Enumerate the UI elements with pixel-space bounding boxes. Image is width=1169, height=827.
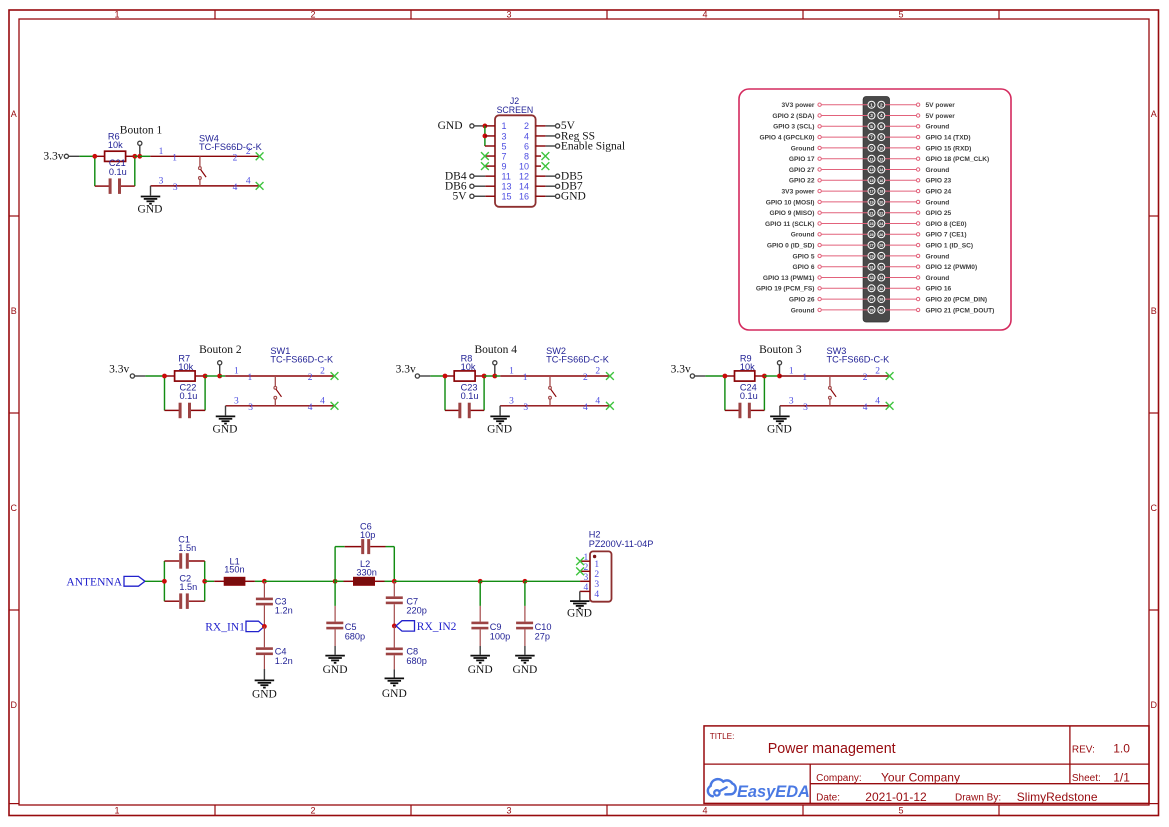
connector H2 labels [589,530,654,550]
svg-text:4: 4 [583,403,588,413]
svg-text:23: 23 [869,222,873,226]
svg-text:3: 3 [870,113,873,118]
net label 3.3v (B3) [671,363,691,375]
resistor R6 body [105,151,126,161]
wire resistor to junction2 (B2) [195,375,205,377]
wire button port down (B4) [494,365,496,376]
svg-text:Ground: Ground [791,307,815,314]
svg-text:3: 3 [159,177,164,187]
svg-text:7: 7 [870,135,873,140]
svg-text:27: 27 [869,244,873,248]
switch SW3 labels [827,346,891,364]
capacitor C6 [345,539,386,554]
net port terminal 5V (J2 right) [556,124,560,128]
svg-text:C9: C9 [490,622,502,632]
svg-text:4: 4 [524,131,529,141]
net label ANTENNA [66,576,122,588]
junction dot 2 (B2) [203,374,208,379]
wire button port down (B3) [779,365,781,376]
switch SW2 labels [546,346,610,364]
wire capacitor loop left (B3) [724,376,726,410]
svg-text:15: 15 [869,179,873,183]
wire button port down (B1) [139,145,141,156]
svg-text:12: 12 [879,157,883,161]
svg-text:TITLE:: TITLE: [710,732,735,741]
junction dot 3 (B1) [137,154,142,159]
switch SW1 pin labels [234,367,325,413]
gpio row 11 (pins 21/22) [769,209,951,217]
wire pin1 row (B4) [495,375,610,377]
net label GND (J2 right) [561,191,586,203]
no-connect flag pin4 (B2) [331,402,339,410]
net label RX_IN2 [417,621,457,633]
svg-text:GPIO 15 (RXD): GPIO 15 (RXD) [926,145,972,152]
no-connect flag pin2 (B2) [331,372,339,380]
wire C5 to ground [334,646,336,655]
svg-text:10: 10 [519,161,529,171]
net label Bouton 2 [199,344,242,356]
ground symbol (C8) [385,678,405,685]
svg-text:40: 40 [879,309,883,313]
gpio row 19 (pins 37/38) [789,296,987,304]
junction dot 1 (B4) [443,374,448,379]
svg-text:GPIO 0 (ID_SD): GPIO 0 (ID_SD) [767,243,815,250]
wire junction2 to junction3 (B4) [484,375,495,377]
wire node2 to C5 [334,581,336,606]
wire pin3 row (B3) [780,405,890,407]
svg-text:5: 5 [502,141,507,151]
svg-text:GPIO 6: GPIO 6 [793,264,815,271]
net port terminal DB7 (J2 right) [556,184,560,188]
net label Enable Signal (J2 right) [561,140,625,152]
svg-text:SCREEN: SCREEN [497,105,534,115]
svg-text:25: 25 [869,233,873,237]
wire C8 to ground [393,669,395,677]
svg-text:220p: 220p [406,606,426,616]
wire capacitor loop right (B2) [204,376,206,410]
ground symbol (C10) [515,656,535,663]
junction dot 2 (B4) [482,374,487,379]
svg-text:10k: 10k [740,362,755,372]
ground label (C5) [323,664,348,676]
junction dot 3 (B3) [777,374,782,379]
svg-text:Drawn By:: Drawn By: [955,793,1001,804]
title block Company [816,770,960,784]
wire GND bus down (J2) [484,126,486,146]
gpio row 2 (pins 3/4) [772,112,955,120]
svg-text:1: 1 [594,560,599,570]
capacitor C2 [164,593,204,609]
net port terminal Reg SS (J2 right) [556,134,560,138]
junction dot J2 pin1 [483,124,488,129]
ground label (B1) [138,203,163,215]
title block Date [816,790,927,804]
svg-text:36: 36 [879,287,883,291]
svg-text:3: 3 [523,403,528,413]
svg-text:1/1: 1/1 [1113,770,1130,784]
gpio row 8 (pins 15/16) [789,177,952,185]
svg-text:3.3v: 3.3v [43,151,63,163]
net label RX_IN1 [205,621,245,633]
ground label (C9) [468,664,493,676]
svg-text:2: 2 [233,154,238,164]
svg-text:GND: GND [438,120,463,132]
no-connect flag pin2 (B1) [256,152,264,160]
svg-text:REV:: REV: [1072,744,1095,755]
svg-text:8: 8 [524,151,529,161]
svg-text:0.1u: 0.1u [461,391,479,401]
svg-text:D: D [11,700,18,710]
wire to ground (B1) [150,186,152,196]
capacitor C5 [326,606,343,646]
switch SW2 symbol [549,376,557,406]
svg-text:4: 4 [880,113,883,118]
capacitor C21 labels [109,158,127,177]
ground symbol (B2) [216,416,236,423]
svg-text:100p: 100p [490,631,510,641]
svg-text:GND: GND [252,689,277,701]
wire junction to resistor (B4) [445,375,454,377]
net port terminal DB4 (J2) [470,174,474,178]
net flag RX_IN2 [396,621,415,631]
switch SW3 pin labels [789,367,880,413]
net label DB7 (J2 right) [561,181,583,193]
title block DrawnBy [955,790,1098,804]
wire to ground (B2) [225,406,227,416]
junction dot RX_IN2 [392,624,397,629]
wire J2 right pin row 0 [536,125,556,127]
svg-text:GPIO 23: GPIO 23 [926,178,952,185]
no-connect flag pin2 (B4) [606,372,614,380]
svg-text:GPIO 18 (PCM_CLK): GPIO 18 (PCM_CLK) [926,156,990,163]
resistor R8 labels [461,354,476,373]
no-connect flag J2 pin7 [481,152,489,160]
svg-text:Enable Signal: Enable Signal [561,140,625,152]
capacitor C8 labels [406,647,426,666]
svg-text:GPIO 11 (SCLK): GPIO 11 (SCLK) [765,221,814,228]
svg-text:4: 4 [233,183,238,193]
svg-text:1.5n: 1.5n [178,543,196,553]
junction dot 1 (B3) [723,374,728,379]
svg-text:3.3v: 3.3v [671,363,691,375]
svg-text:TC-FS66D-C-K: TC-FS66D-C-K [546,355,610,365]
resistor R7 labels [178,354,193,373]
net flag ANTENNA [124,576,145,586]
capacitor C24 labels [740,382,758,401]
wire junction to resistor (B2) [165,375,175,377]
ground label (B2) [213,423,238,435]
wire capacitor loop right (B3) [763,376,765,410]
gpio row 12 (pins 23/24) [765,220,967,228]
net port terminal 5V (J2) [470,194,474,198]
connector J2 body [495,115,536,207]
connector J2 pin numbers [502,121,530,201]
svg-text:11: 11 [870,157,874,161]
wire J2 pin8 [536,155,541,157]
no-connect flag pin4 (B4) [606,402,614,410]
net port terminal GND (J2) [470,124,474,128]
no-connect flag J2 pin9 [481,162,489,170]
wire resistor to junction2 (B3) [755,375,765,377]
svg-text:37: 37 [869,298,873,302]
connector H2 pin stubs [580,561,590,591]
wire J2 right pin row 6 [536,185,556,187]
ground symbol (C5) [325,656,345,663]
svg-text:9: 9 [870,146,873,151]
svg-text:2021-01-12: 2021-01-12 [865,790,927,804]
wire C1C2 left vertical [163,561,165,601]
gpio row 14 (pins 27/28) [767,242,973,250]
svg-text:1: 1 [114,10,119,20]
svg-text:Ground: Ground [791,232,815,239]
svg-text:GPIO 4 (GPCLK0): GPIO 4 (GPCLK0) [760,135,815,142]
svg-text:GPIO 1 (ID_SC): GPIO 1 (ID_SC) [926,243,974,250]
wire resistor to junction2 (B4) [475,375,484,377]
svg-text:2: 2 [310,10,315,20]
ground symbol (B3) [770,416,790,423]
svg-text:C10: C10 [535,622,552,632]
svg-text:4: 4 [594,590,599,600]
svg-text:330n: 330n [356,567,376,577]
svg-text:8: 8 [880,135,883,140]
net label 5V (J2) [453,191,468,203]
wire to ground (B3) [779,406,781,416]
junction dot RX_IN1 [262,624,267,629]
svg-text:GPIO 12 (PWM0): GPIO 12 (PWM0) [926,264,978,271]
ground label (B3) [767,423,792,435]
svg-text:GND: GND [213,423,238,435]
svg-text:1.2n: 1.2n [275,656,293,666]
svg-text:3: 3 [584,573,589,583]
svg-text:5: 5 [898,10,903,20]
title block Sheet [1072,770,1130,784]
svg-text:1: 1 [509,367,514,377]
svg-text:GND: GND [382,688,407,700]
svg-text:4: 4 [702,10,707,20]
svg-text:SlimyRedstone: SlimyRedstone [1017,790,1098,804]
svg-text:2: 2 [246,147,251,157]
svg-text:150n: 150n [224,565,244,575]
switch SW3 symbol [829,376,837,406]
svg-text:2: 2 [524,121,529,131]
svg-text:Ground: Ground [926,124,950,131]
svg-text:Bouton 4: Bouton 4 [475,344,518,356]
junction dot node5 [523,579,528,584]
net port terminal 3.3v (B4) [415,374,419,378]
net label DB4 (J2) [445,170,467,182]
svg-text:GND: GND [323,664,348,676]
capacitor C3 labels [275,596,293,615]
connector H2 pin numbers [584,553,600,600]
svg-text:GND: GND [512,664,537,676]
svg-text:21: 21 [869,211,873,215]
ground symbol (C9) [470,656,490,663]
svg-text:Ground: Ground [791,145,815,152]
wire junction2 to junction3 (B3) [764,375,779,377]
gpio row 20 (pins 39/40) [791,306,995,314]
svg-text:1: 1 [502,121,507,131]
switch SW4 symbol [199,156,207,186]
wire pin1 row (B2) [220,375,335,377]
svg-text:680p: 680p [406,656,426,666]
svg-text:EasyEDA: EasyEDA [737,783,810,801]
wire J2 right pin row 5 [536,175,556,177]
no-connect flag pin4 (B1) [256,182,264,190]
junction dot 1 (B2) [162,374,167,379]
ground label (C10) [512,664,537,676]
svg-text:2: 2 [594,570,599,580]
inductor L2 labels [356,559,376,577]
wire pin1 row (B1) [140,155,260,157]
wire J2 right pin row 7 [536,195,556,197]
net label Bouton 4 [475,344,518,356]
wire node4 to C9 [479,581,481,606]
resistor R8 body [454,371,475,381]
resistor R9 labels [740,354,755,373]
junction dot 3 (B4) [492,374,497,379]
svg-text:17: 17 [869,190,873,194]
wire C4 to ground [263,669,265,680]
svg-text:2: 2 [320,367,325,377]
capacitor C3 [256,581,273,624]
switch SW1 labels [270,346,334,364]
svg-text:10: 10 [879,147,883,151]
svg-text:6: 6 [880,124,883,129]
svg-text:3: 3 [173,183,178,193]
junction dot J2 pin3 [483,134,488,139]
wire J2 right pin row 2 [536,145,556,147]
svg-text:22: 22 [879,211,883,215]
svg-text:5: 5 [898,806,903,816]
svg-text:3: 3 [789,397,794,407]
capacitor C1 labels [178,535,196,553]
ground label (B4) [487,423,512,435]
svg-text:1: 1 [234,367,239,377]
ground symbol (B4) [490,416,510,423]
svg-text:30: 30 [879,255,883,259]
svg-text:4: 4 [702,806,707,816]
wire 3.3v to junction (B4) [420,375,446,377]
net port terminal 3.3v (B2) [130,374,134,378]
switch SW4 labels [199,134,263,152]
wire node5 to C10 [524,581,526,606]
wire pin3 row (B4) [500,405,610,407]
svg-text:GPIO 5: GPIO 5 [793,253,815,260]
wire C9 to ground [479,646,481,655]
svg-text:0.1u: 0.1u [740,391,758,401]
wire junction to resistor (B1) [95,155,105,157]
svg-text:GPIO 25: GPIO 25 [926,210,952,217]
svg-text:GPIO 3 (SCL): GPIO 3 (SCL) [773,124,814,131]
svg-text:D: D [1151,700,1158,710]
svg-text:5: 5 [870,124,873,129]
net flag RX_IN1 [246,621,264,631]
no-connect flag J2 pin10 [542,162,550,170]
svg-text:27p: 27p [535,631,550,641]
gpio row 13 (pins 25/26) [791,231,967,239]
junction dot C1C2 right [202,579,207,584]
connector H2 body [590,551,612,601]
capacitor C23 labels [461,382,479,401]
wire H2 pin4 to ground [579,591,581,600]
resistor R6 labels [108,131,123,150]
wire junction to resistor (B3) [725,375,735,377]
svg-text:RX_IN1: RX_IN1 [205,621,245,633]
svg-text:Company:: Company: [816,773,862,784]
wire DB4 to J2 [474,175,495,177]
svg-text:16: 16 [879,179,883,183]
svg-text:9: 9 [502,161,507,171]
wire pin1 row (B3) [780,375,890,377]
wire J2 pin1 [485,125,495,127]
svg-text:GPIO 22: GPIO 22 [789,178,815,185]
gpio row 9 (pins 17/18) [782,188,952,196]
svg-text:5V power: 5V power [926,113,956,120]
svg-text:GND: GND [487,423,512,435]
capacitor C7 [386,581,403,624]
wire 3.3v to junction (B2) [135,375,165,377]
svg-text:Power management: Power management [768,741,896,757]
svg-text:2: 2 [310,806,315,816]
svg-text:4: 4 [320,397,325,407]
net label DB6 (J2) [445,181,467,193]
svg-text:680p: 680p [345,631,365,641]
gpio row 18 (pins 35/36) [756,285,952,293]
title block dividers [704,726,1149,804]
gpio header strip [863,97,889,323]
net label 3.3v (B1) [43,151,63,163]
svg-text:Ground: Ground [926,253,950,260]
svg-text:B: B [1151,306,1157,316]
svg-text:4: 4 [584,583,589,593]
svg-text:4: 4 [595,397,600,407]
svg-text:TC-FS66D-C-K: TC-FS66D-C-K [270,355,334,365]
svg-text:4: 4 [308,403,313,413]
svg-text:28: 28 [879,244,883,248]
junction dot node3 [392,579,397,584]
svg-text:4: 4 [863,403,868,413]
svg-text:31: 31 [869,265,873,269]
no-connect flag J2 pin8 [542,152,550,160]
junction dot 3 (B2) [217,374,222,379]
svg-text:GPIO 2 (SDA): GPIO 2 (SDA) [772,113,814,120]
inductor L1 body [224,577,245,585]
svg-text:GPIO 7 (CE1): GPIO 7 (CE1) [926,232,967,239]
svg-text:GPIO 9 (MISO): GPIO 9 (MISO) [769,210,814,217]
svg-text:0.1u: 0.1u [109,167,127,177]
svg-text:5V power: 5V power [926,102,956,109]
junction dot C1C2 left [162,579,167,584]
svg-text:3: 3 [506,10,511,20]
svg-text:1: 1 [159,147,164,157]
ground symbol (B1) [141,197,161,204]
svg-text:1.2n: 1.2n [275,606,293,616]
net port terminal Bouton 2 [218,361,222,365]
wire button port down (B2) [219,365,221,376]
title block TITLE label [710,732,735,741]
gpio row 10 (pins 19/20) [766,198,950,206]
svg-text:GPIO 26: GPIO 26 [789,297,815,304]
svg-text:3: 3 [506,806,511,816]
capacitor C10 [516,606,533,646]
svg-text:RX_IN2: RX_IN2 [417,621,457,633]
svg-text:GND: GND [561,191,586,203]
capacitor C5 labels [345,622,365,642]
svg-text:3: 3 [502,131,507,141]
svg-text:19: 19 [869,201,873,205]
capacitor C7 labels [406,596,426,615]
gpio row 4 (pins 7/8) [760,134,971,142]
